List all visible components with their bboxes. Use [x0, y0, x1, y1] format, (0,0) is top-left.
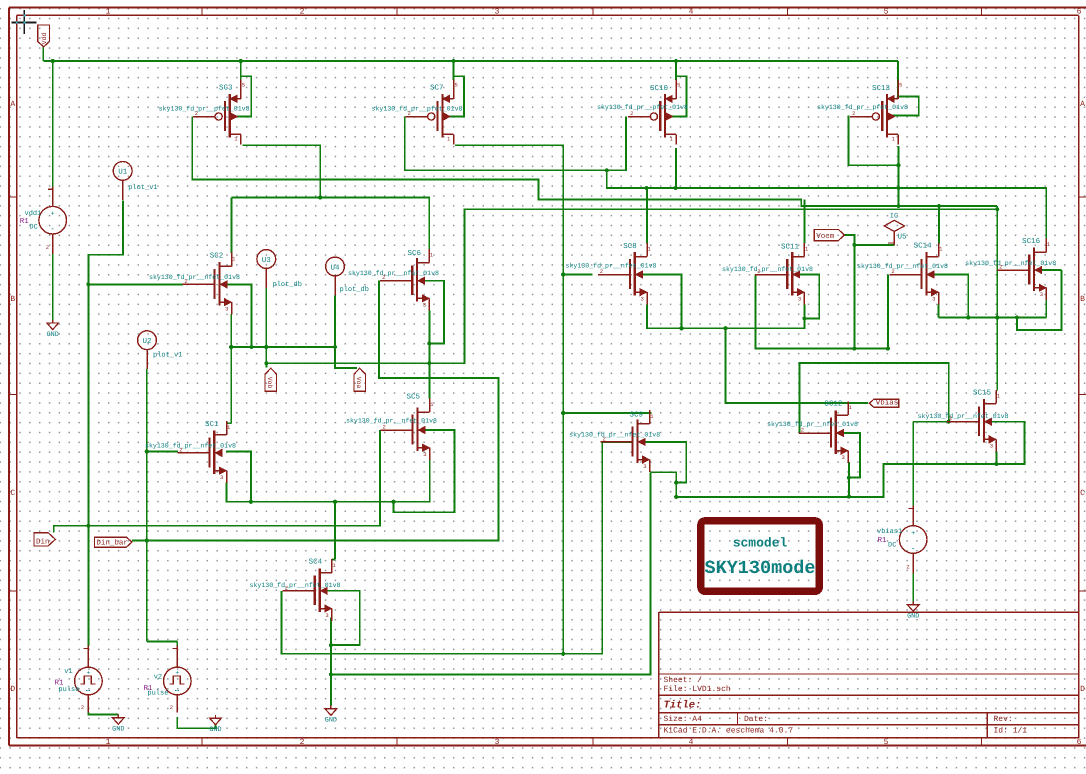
svg-text:2: 2 [383, 424, 386, 431]
svg-text:A: A [10, 100, 15, 109]
svg-text:3: 3 [495, 8, 500, 17]
svg-text:SC16: SC16 [1022, 237, 1041, 246]
svg-text:Id: 1/1: Id: 1/1 [994, 726, 1028, 735]
svg-text:2: 2 [300, 738, 305, 747]
svg-text:U3: U3 [262, 256, 272, 265]
svg-text:A: A [1080, 100, 1085, 109]
svg-text:sky130_fd_pr__nfet_01v8: sky130_fd_pr__nfet_01v8 [722, 266, 813, 273]
svg-text:2: 2 [184, 278, 187, 285]
svg-text:v1: v1 [64, 668, 72, 676]
svg-text:sky130_fd_pr__nfet_01v8: sky130_fd_pr__nfet_01v8 [348, 270, 439, 277]
svg-text:3: 3 [423, 302, 426, 309]
svg-text:3: 3 [225, 305, 228, 312]
svg-text:1: 1 [106, 8, 111, 17]
svg-text:3: 3 [643, 463, 646, 470]
svg-text:KiCad E.D.A. eeschema 4.0.7: KiCad E.D.A. eeschema 4.0.7 [664, 726, 794, 735]
svg-text:SC6: SC6 [408, 249, 422, 258]
svg-text:IC: IC [890, 212, 898, 220]
svg-text:2: 2 [408, 110, 411, 117]
svg-text:2: 2 [949, 415, 952, 422]
svg-text:3: 3 [641, 296, 644, 303]
svg-text:5: 5 [899, 82, 902, 89]
svg-text:U5: U5 [898, 233, 908, 241]
svg-text:sky130_fd_pr__nfet_01v8: sky130_fd_pr__nfet_01v8 [569, 432, 660, 439]
svg-text:SC7: SC7 [430, 84, 444, 93]
svg-text:sky130_fd_pr__nfet_01v8: sky130_fd_pr__nfet_01v8 [346, 418, 437, 425]
svg-text:2: 2 [891, 268, 894, 275]
svg-text:Title:: Title: [664, 700, 702, 712]
svg-text:C: C [10, 489, 15, 498]
svg-text:3: 3 [932, 296, 935, 303]
svg-text:6: 6 [1077, 738, 1082, 747]
svg-text:vbias1: vbias1 [877, 527, 902, 536]
svg-text:sky130_fd_pr__nfet_01v8: sky130_fd_pr__nfet_01v8 [965, 260, 1056, 267]
svg-text:Din: Din [36, 537, 50, 546]
svg-text:3: 3 [495, 738, 500, 747]
svg-text:2: 2 [382, 274, 385, 281]
svg-text:GND: GND [325, 717, 337, 725]
svg-text:SC1: SC1 [205, 420, 219, 429]
svg-text:3: 3 [798, 296, 801, 303]
svg-text:2: 2 [195, 110, 198, 117]
svg-text:3: 3 [990, 443, 993, 450]
svg-text:-: - [50, 225, 55, 234]
svg-text:sky130_fd_pr__pfet_01v8: sky130_fd_pr__pfet_01v8 [817, 104, 908, 111]
svg-text:Din_bar: Din_bar [96, 539, 128, 548]
svg-text:2: 2 [906, 564, 909, 571]
svg-text:2: 2 [179, 446, 182, 453]
svg-text:plot_db: plot_db [273, 280, 302, 289]
svg-text:SC12: SC12 [824, 400, 842, 409]
svg-text:sky130_fd_pr__nfet_01v8: sky130_fd_pr__nfet_01v8 [149, 274, 240, 281]
svg-text:Vob: Vob [266, 377, 273, 389]
svg-text:2: 2 [600, 268, 603, 275]
svg-text:U4: U4 [330, 264, 340, 272]
svg-text:5: 5 [455, 82, 458, 89]
svg-text:sky130_fd_pr__nfet_01v8: sky130_fd_pr__nfet_01v8 [565, 263, 656, 270]
svg-text:3: 3 [842, 454, 845, 461]
svg-text:3: 3 [220, 474, 223, 481]
svg-text:sky130_fd_pr__pfet_01v8: sky130_fd_pr__pfet_01v8 [597, 104, 688, 111]
svg-text:scmodel: scmodel [733, 536, 788, 551]
svg-text:v2: v2 [154, 674, 162, 682]
svg-text:GND: GND [112, 726, 124, 734]
svg-text:SC11: SC11 [781, 243, 800, 252]
svg-text:SC8: SC8 [623, 242, 637, 251]
svg-text:sky130_fd_pr__nfet_01v8: sky130_fd_pr__nfet_01v8 [145, 443, 236, 450]
svg-text:C: C [1080, 489, 1085, 498]
svg-text:File: LVD1.sch: File: LVD1.sch [664, 685, 731, 694]
svg-text:2: 2 [285, 584, 288, 591]
svg-text:sky130_fd_pr__pfet_01v8: sky130_fd_pr__pfet_01v8 [159, 106, 250, 113]
svg-text:2: 2 [852, 110, 855, 117]
svg-text:5: 5 [677, 82, 680, 89]
svg-text:B: B [1080, 295, 1085, 304]
svg-text:+: + [51, 211, 55, 219]
svg-text:2: 2 [630, 110, 633, 117]
svg-text:DC: DC [888, 542, 896, 550]
svg-text:SC14: SC14 [914, 242, 933, 251]
svg-text:GND: GND [907, 613, 919, 621]
svg-text:U1: U1 [118, 169, 128, 177]
svg-text:Vbias: Vbias [876, 399, 899, 408]
svg-text:sky130_fd_pr__nfet_01v8: sky130_fd_pr__nfet_01v8 [918, 413, 1009, 420]
svg-text:D: D [10, 685, 15, 694]
svg-text:2: 2 [999, 264, 1002, 271]
svg-text:2: 2 [170, 704, 173, 711]
svg-text:5: 5 [884, 8, 889, 17]
svg-text:D: D [1080, 685, 1085, 694]
svg-text:vdd1: vdd1 [25, 209, 42, 218]
svg-text:SC10: SC10 [650, 84, 669, 93]
svg-text:6: 6 [1077, 8, 1082, 17]
svg-text:2: 2 [757, 268, 760, 275]
svg-text:R1: R1 [20, 218, 30, 226]
svg-text:+: + [86, 670, 90, 677]
svg-text:1: 1 [106, 738, 111, 747]
svg-text:U2: U2 [142, 337, 151, 346]
svg-text:Size: A4: Size: A4 [664, 715, 703, 724]
svg-text:Voa: Voa [355, 377, 362, 389]
svg-text:Date:: Date: [744, 715, 768, 724]
svg-text:3: 3 [325, 612, 328, 619]
svg-text:4: 4 [689, 8, 694, 17]
svg-text:Vdd: Vdd [41, 32, 48, 44]
svg-text:-: - [911, 545, 916, 554]
svg-text:SC4: SC4 [309, 558, 323, 567]
svg-text:plot_v1: plot_v1 [128, 183, 157, 192]
svg-text:5: 5 [884, 738, 889, 747]
svg-text:plot_db: plot_db [340, 285, 369, 294]
svg-text:2: 2 [300, 8, 305, 17]
svg-text:SC9: SC9 [630, 411, 644, 420]
svg-text:R1: R1 [878, 537, 888, 545]
svg-text:Sheet: /: Sheet: / [664, 676, 703, 685]
svg-text:2: 2 [81, 704, 84, 711]
svg-text:SC5: SC5 [407, 393, 421, 402]
svg-text:pulse: pulse [147, 689, 168, 698]
svg-text:+: + [175, 670, 179, 677]
svg-text:3: 3 [1040, 291, 1043, 298]
svg-text:2: 2 [603, 435, 606, 442]
svg-text:sky130_fd_pr__nfet_01v8: sky130_fd_pr__nfet_01v8 [249, 582, 340, 589]
svg-text:SC15: SC15 [973, 389, 992, 398]
svg-text:SKY130mode: SKY130mode [704, 558, 815, 579]
svg-text:SC13: SC13 [872, 84, 891, 93]
svg-text:DC: DC [29, 224, 37, 232]
svg-text:B: B [10, 295, 15, 304]
svg-text:Vocm: Vocm [816, 233, 835, 241]
svg-text:Rev:: Rev: [994, 715, 1013, 724]
svg-text:sky130_fd_pr__nfet_01v8: sky130_fd_pr__nfet_01v8 [857, 263, 948, 270]
svg-text:SC2: SC2 [210, 252, 224, 261]
svg-text:GND: GND [47, 331, 59, 339]
svg-text:+: + [911, 530, 915, 538]
svg-text:2: 2 [801, 427, 804, 434]
svg-text:2: 2 [46, 244, 49, 251]
svg-text:4: 4 [689, 738, 694, 747]
svg-text:sky130_fd_pr__pfet_01v8: sky130_fd_pr__pfet_01v8 [371, 106, 462, 113]
svg-text:SC3: SC3 [219, 84, 233, 93]
svg-text:GND: GND [209, 726, 221, 734]
svg-text:5: 5 [242, 82, 245, 89]
svg-text:3: 3 [423, 451, 426, 458]
svg-text:pulse: pulse [58, 685, 79, 694]
svg-text:plot_v1: plot_v1 [153, 351, 182, 360]
svg-text:sky130_fd_pr__nfet_01v8: sky130_fd_pr__nfet_01v8 [767, 421, 858, 428]
